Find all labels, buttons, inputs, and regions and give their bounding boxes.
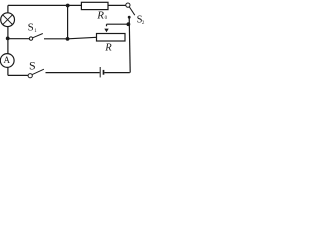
svg-text:2: 2 bbox=[142, 21, 145, 26]
svg-text:0: 0 bbox=[105, 16, 108, 21]
svg-text:1: 1 bbox=[34, 29, 37, 34]
svg-text:S: S bbox=[29, 58, 36, 72]
svg-text:S: S bbox=[28, 21, 34, 33]
svg-text:A: A bbox=[4, 55, 11, 65]
svg-text:R: R bbox=[96, 10, 104, 22]
svg-text:R: R bbox=[104, 43, 112, 54]
